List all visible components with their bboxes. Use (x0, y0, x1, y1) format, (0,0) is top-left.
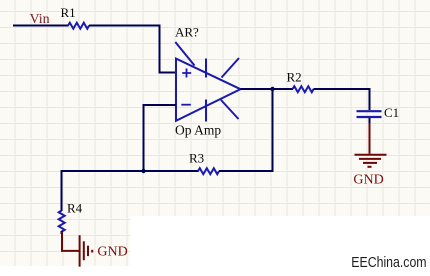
power ground GND symbol (left, pointing right) (62, 232, 92, 267)
svg-text:C1: C1 (384, 105, 399, 120)
resistor R4 (59, 211, 65, 232)
wire feedback node down to R4 (61, 170, 63, 211)
svg-text:GND: GND (97, 245, 127, 260)
svg-text:Op Amp: Op Amp (175, 123, 221, 138)
wire op-amp output (241, 88, 294, 90)
wire Vin input to R1 (13, 25, 69, 27)
svg-text:EEChina.com: EEChina.com (351, 254, 426, 270)
svg-text:GND: GND (353, 172, 383, 187)
wire R3 up to output node (219, 89, 273, 171)
svg-text:AR?: AR? (175, 25, 199, 40)
resistor R3 (198, 168, 219, 174)
svg-text:R1: R1 (61, 5, 76, 20)
capacitor C1 bottom plate (357, 116, 382, 118)
op-amp - input symbol (181, 104, 191, 106)
wire R4 to power ground (61, 231, 63, 234)
svg-text:R4: R4 (67, 200, 83, 215)
op-amp V+ power pin (205, 59, 207, 78)
op-amp offset pin upper-right diagonal (222, 58, 240, 78)
op-amp offset pin lower-right diagonal (221, 100, 239, 119)
op-amp offset pin upper-left diagonal (175, 42, 194, 66)
ground GND earth symbol (right) (355, 123, 387, 167)
capacitor C1 top plate (357, 110, 382, 112)
resistor R2 (293, 86, 314, 92)
wire R1 to op-amp + input (89, 26, 176, 73)
junction feedback node (141, 169, 145, 173)
op-amp + input symbol (182, 69, 191, 78)
svg-text:R2: R2 (287, 69, 302, 84)
svg-text:R3: R3 (189, 150, 204, 165)
wire feedback left segment (62, 170, 199, 172)
wire R2 to capacitor C1 (314, 89, 370, 110)
resistor R1 (68, 23, 89, 29)
wire op-amp - input to feedback node (144, 105, 177, 171)
op-amp V- power pin (205, 100, 207, 122)
wire C1 to ground (369, 118, 371, 124)
op-amp AR? triangle (176, 59, 241, 121)
junction output node (270, 87, 274, 91)
